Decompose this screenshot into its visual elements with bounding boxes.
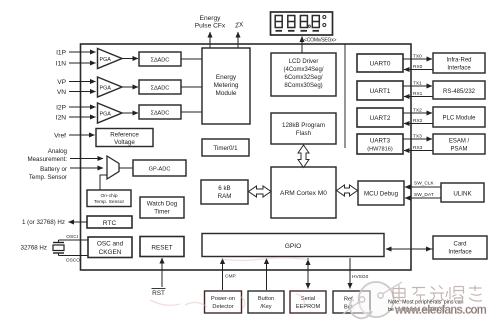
wire GPIO to Card Interface — [386, 248, 433, 250]
UART1 block — [357, 81, 403, 100]
wire GPIO to Serial EEPROM — [307, 258, 309, 289]
RTC block — [87, 216, 132, 228]
Ref Buf block — [333, 291, 370, 313]
svg-text:RX0: RX0 — [413, 64, 423, 70]
svg-text:LCD Driver: LCD Driver — [289, 59, 319, 65]
Reference Voltage block — [96, 129, 153, 147]
svg-text:Flash: Flash — [296, 130, 312, 137]
svg-text:Analog: Analog — [48, 148, 68, 155]
ESAM/PSAM block — [433, 134, 485, 154]
wire mux to GP-ADC — [119, 167, 133, 169]
svg-text:RAM: RAM — [218, 193, 232, 200]
svg-text:Σ∆ADC: Σ∆ADC — [151, 58, 170, 64]
UART2 block — [357, 108, 403, 127]
svg-text:Watch Dog: Watch Dog — [147, 201, 178, 208]
wire Button to GPIO — [266, 259, 268, 291]
wire LCD COM/SEG — [301, 37, 303, 54]
svg-text:/Key: /Key — [260, 304, 271, 310]
svg-text:6Comx32Seg/: 6Comx32Seg/ — [284, 75, 322, 81]
wire I2N — [69, 116, 96, 118]
svg-text:RS-485/232: RS-485/232 — [443, 89, 476, 95]
wire I1P — [69, 51, 96, 53]
wire ADC1 to EMM — [181, 58, 202, 60]
ADC3 sigma-delta — [139, 105, 181, 119]
svg-text:I2N: I2N — [56, 115, 66, 122]
mux for GP-ADC inputs — [107, 156, 119, 179]
svg-text:RX3: RX3 — [413, 145, 423, 151]
svg-text:Interface: Interface — [448, 250, 472, 256]
wire RTC output — [69, 221, 88, 223]
PLC Module block — [433, 107, 485, 127]
svg-text:128kB Program: 128kB Program — [282, 122, 325, 129]
wire ADC3 to EMM — [181, 111, 202, 113]
Watch Dog Timer block — [140, 197, 184, 218]
svg-text:TX2: TX2 — [413, 108, 422, 114]
wire analog in 2 — [70, 167, 103, 169]
wire PGA2 to ADC2 — [122, 86, 138, 88]
svg-text:Detector: Detector — [212, 304, 233, 310]
svg-text:UART3: UART3 — [370, 138, 391, 145]
watermark chinese characters — [393, 285, 482, 303]
chip boundary — [81, 44, 412, 270]
Card Interface block — [433, 236, 487, 259]
wire GPIO to Ref Buf HVSG0 — [349, 258, 351, 289]
svg-text:Power-on: Power-on — [211, 296, 235, 302]
svg-text:Temp. Sensor: Temp. Sensor — [94, 199, 125, 205]
svg-text:RESET: RESET — [151, 245, 172, 252]
Infra-Red Interface block — [433, 53, 485, 73]
UART0 block — [357, 54, 403, 72]
svg-text:PSAM: PSAM — [450, 147, 467, 153]
LCD icon segment dashes — [276, 30, 320, 32]
Button/Key block — [248, 291, 284, 313]
wire RX0 — [404, 69, 433, 71]
GP-ADC block — [133, 160, 186, 176]
svg-text:Measurement:: Measurement: — [27, 156, 67, 163]
wire ZX output — [237, 32, 239, 48]
On-chip Temp Sensor block — [87, 190, 131, 207]
svg-text:ARM Cortex M0: ARM Cortex M0 — [280, 190, 327, 197]
svg-text:GP-ADC: GP-ADC — [149, 167, 171, 173]
LCD Driver block — [271, 53, 336, 96]
wire Vref — [69, 134, 95, 136]
svg-text:Energy: Energy — [200, 15, 222, 22]
LCD display icon — [271, 12, 333, 35]
wire TX3 — [403, 138, 432, 140]
svg-text:Timer0/1: Timer0/1 — [213, 145, 238, 152]
amplifier PGA1 — [98, 49, 123, 69]
svg-text:I1N: I1N — [56, 61, 66, 68]
bus Flash-ARM hollow arrow — [298, 145, 309, 168]
wire RX3 — [404, 150, 433, 152]
OSC and CKGEN block — [88, 237, 132, 258]
svg-text:UART2: UART2 — [370, 115, 391, 122]
svg-text:Reference: Reference — [110, 132, 139, 139]
svg-text:Temp. Sensor: Temp. Sensor — [29, 174, 67, 181]
svg-text:Pulse CFx: Pulse CFx — [195, 23, 226, 30]
128kB Program Flash block — [271, 113, 336, 144]
wire CFx pulse output — [209, 32, 211, 48]
svg-text:Button: Button — [258, 296, 274, 302]
pin Analog Measurement label — [27, 148, 67, 181]
svg-text:VN: VN — [57, 89, 66, 96]
wire ADC2 to EMM — [181, 86, 202, 88]
wire PGA1 to ADC1 — [122, 58, 138, 60]
svg-text:UART1: UART1 — [370, 88, 391, 95]
svg-text:I1P: I1P — [56, 50, 66, 57]
svg-text:RTC: RTC — [103, 220, 117, 227]
svg-text:PGA: PGA — [100, 86, 112, 92]
svg-text:Voltage: Voltage — [114, 139, 135, 146]
svg-text:1 (or 32768) Hz: 1 (or 32768) Hz — [22, 219, 65, 226]
wire TX0 — [403, 58, 432, 60]
wire VP — [69, 81, 96, 83]
svg-text:GPIO: GPIO — [285, 243, 302, 250]
svg-text:SW_CLK: SW_CLK — [414, 181, 435, 187]
svg-text:(HW7816): (HW7816) — [367, 147, 393, 153]
svg-text:TX0: TX0 — [413, 54, 422, 60]
svg-text:<COMx/SEGx>: <COMx/SEGx> — [304, 38, 337, 44]
watermark pink tints — [150, 258, 309, 308]
svg-text:RX2: RX2 — [413, 118, 423, 124]
svg-text:Battery or: Battery or — [40, 166, 67, 173]
svg-text:TX3: TX3 — [413, 134, 422, 140]
svg-text:OSCO: OSCO — [66, 258, 80, 264]
svg-text:Σ∆ADC: Σ∆ADC — [151, 111, 170, 117]
svg-text:VP: VP — [57, 79, 66, 86]
svg-text:CKGEN: CKGEN — [99, 249, 122, 256]
svg-text:HVSG0: HVSG0 — [352, 274, 369, 280]
svg-text:Module: Module — [216, 90, 237, 97]
svg-text:RST: RST — [152, 290, 165, 297]
wire RX2 — [404, 123, 433, 125]
wire SW_CLK — [405, 186, 441, 188]
RS-485/232 block — [433, 81, 485, 99]
bus RAM-ARM hollow arrow — [249, 186, 272, 197]
svg-text:Vref: Vref — [54, 133, 66, 140]
svg-text:8Comx30Seg): 8Comx30Seg) — [284, 83, 322, 89]
wire SW_DAT — [405, 197, 441, 199]
svg-text:Card: Card — [453, 242, 466, 248]
svg-text:SW_DAT: SW_DAT — [414, 192, 434, 198]
wire RST input — [161, 258, 163, 287]
svg-text:TX1: TX1 — [413, 81, 422, 87]
wire internal bus drop — [344, 44, 346, 148]
svg-text:On-chip: On-chip — [100, 193, 117, 199]
note text — [388, 300, 464, 314]
amplifier PGA2 — [98, 77, 123, 97]
Power-on Detector block — [205, 291, 242, 313]
Timer0/1 block — [202, 139, 249, 156]
svg-text:ULINK: ULINK — [453, 191, 472, 198]
svg-text:CMP: CMP — [225, 274, 236, 280]
svg-text:PLC Module: PLC Module — [442, 116, 476, 122]
svg-text:Interface: Interface — [447, 66, 471, 72]
wire I2P — [69, 106, 96, 108]
bus ARM-MCUDebug hollow arrow — [337, 185, 358, 196]
svg-text:Metering: Metering — [214, 82, 239, 89]
svg-text:Σ∆ADC: Σ∆ADC — [151, 86, 170, 92]
ADC1 sigma-delta — [139, 52, 181, 66]
svg-text:OSC and: OSC and — [97, 241, 124, 248]
svg-text:EEPROM: EEPROM — [296, 304, 321, 310]
pin RST label — [152, 289, 166, 298]
svg-text:MCU Debug: MCU Debug — [364, 191, 399, 198]
node CF/ZX label Energy Pulse CFx — [195, 15, 226, 30]
svg-text:32768 Hz: 32768 Hz — [21, 245, 48, 252]
GPIO block — [202, 234, 384, 257]
wire VN — [69, 91, 96, 93]
wire TX2 — [403, 112, 432, 114]
UART3 block — [357, 134, 403, 154]
amplifier PGA3 — [98, 103, 123, 123]
wire OSCI — [59, 239, 89, 241]
wire PGA3 to ADC3 — [122, 112, 138, 114]
Energy Metering Module U-EMM — [202, 48, 250, 124]
svg-text:PGA: PGA — [100, 57, 112, 63]
wire temp sensor to mux — [100, 175, 107, 190]
wire analog in 1 — [70, 158, 103, 160]
svg-text:Energy: Energy — [216, 74, 237, 81]
crystal X1 — [53, 240, 64, 256]
svg-text:(4Comx34Seg/: (4Comx34Seg/ — [283, 67, 323, 73]
ARM Cortex M0 block — [271, 167, 336, 218]
svg-text:ESAM /: ESAM / — [449, 139, 470, 145]
svg-text:UART0: UART0 — [370, 61, 391, 68]
wire OSCO — [59, 255, 89, 257]
wire TX1 — [403, 85, 432, 87]
watermark logo elecfans — [343, 282, 402, 318]
svg-text:6 kB: 6 kB — [218, 185, 230, 192]
svg-text:PGA: PGA — [100, 112, 112, 118]
ULINK block — [441, 183, 484, 202]
svg-text:RX1: RX1 — [413, 91, 423, 97]
6kB RAM block — [201, 180, 248, 204]
svg-text:I2P: I2P — [56, 105, 66, 112]
Serial EEPROM block — [290, 291, 326, 313]
MCU Debug block — [358, 181, 404, 205]
svg-text:Infra-Red: Infra-Red — [446, 58, 471, 64]
wire RX1 — [404, 96, 433, 98]
ADC2 sigma-delta — [139, 80, 181, 94]
svg-text:Timer: Timer — [154, 209, 170, 216]
RESET block — [140, 237, 184, 257]
wire I1N — [69, 62, 96, 64]
svg-text:www.elecfans.com: www.elecfans.com — [394, 304, 486, 317]
svg-text:OSCI: OSCI — [66, 234, 78, 240]
wire CMP to GPIO — [222, 259, 224, 291]
